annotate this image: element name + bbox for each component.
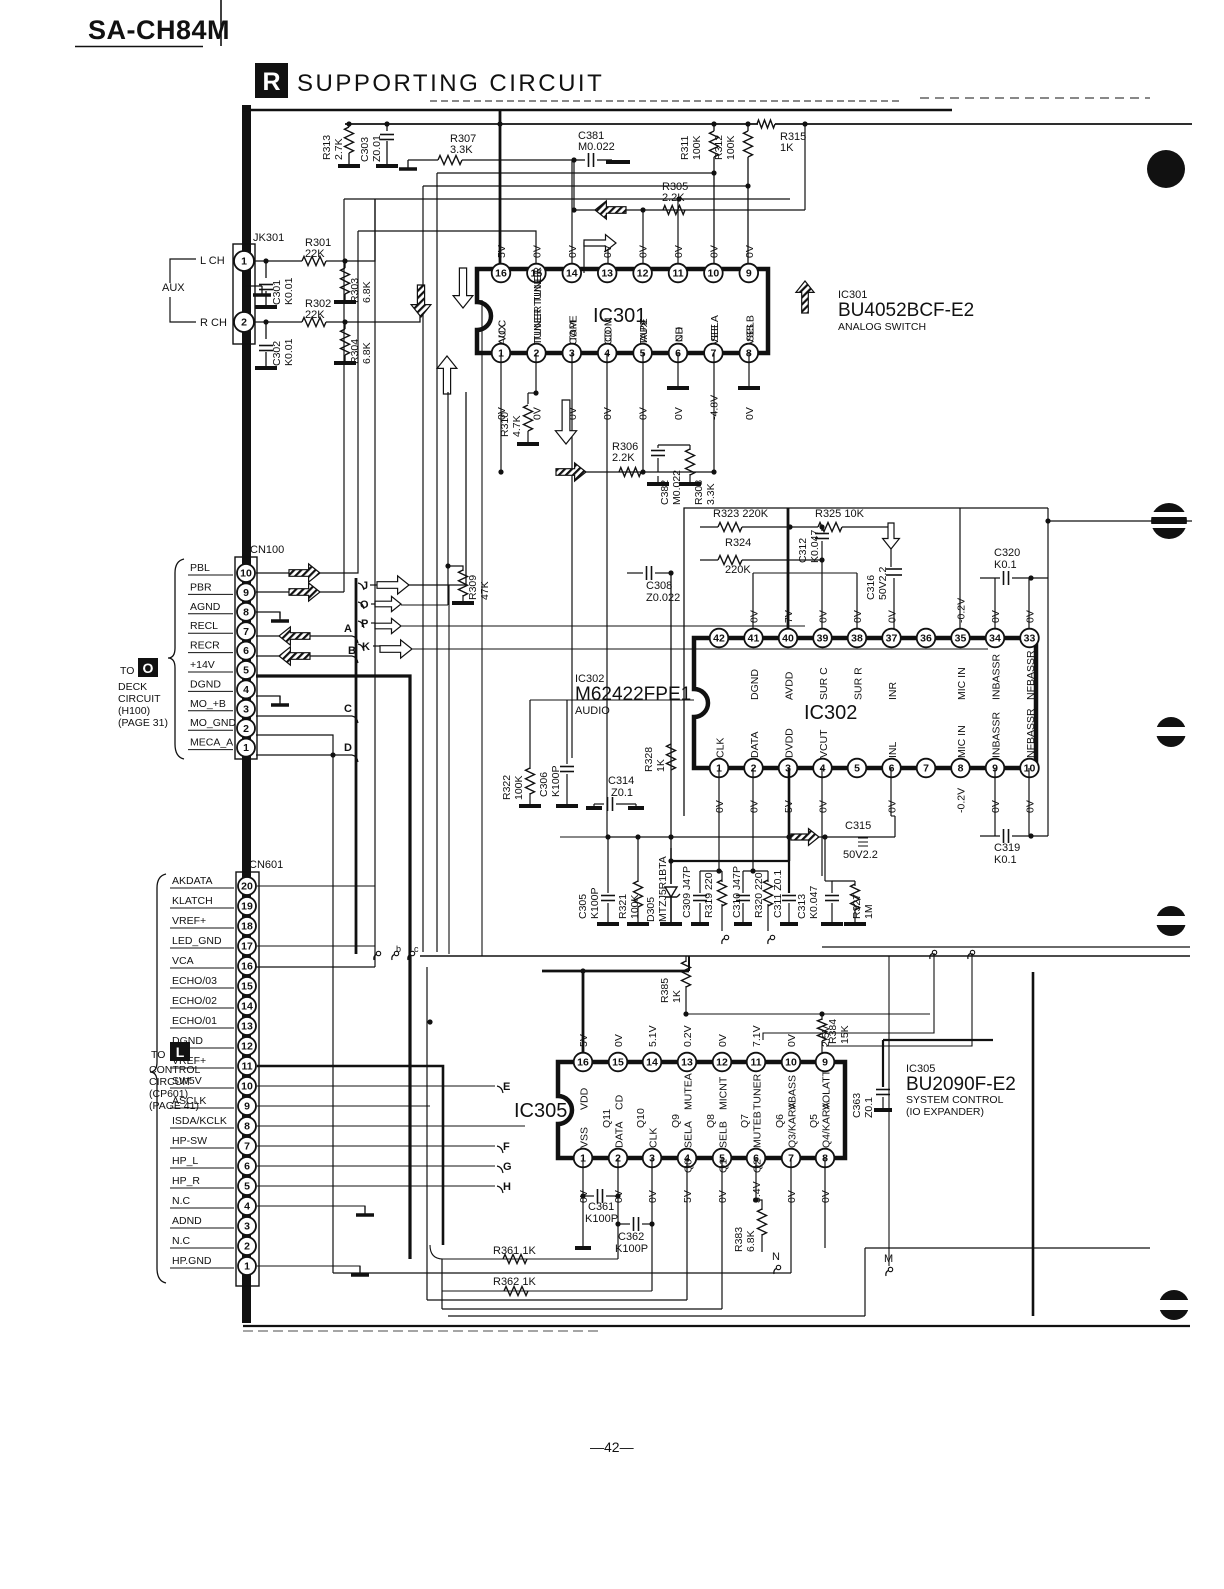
svg-text:D305: D305 xyxy=(645,897,657,922)
registration mark 4 xyxy=(1156,906,1186,936)
resistor R312 100K xyxy=(747,124,749,131)
svg-text:33: 33 xyxy=(1024,633,1036,645)
IC301 pin 4 xyxy=(598,344,617,363)
IC305 pin 11 xyxy=(747,1053,766,1072)
svg-text:22K: 22K xyxy=(305,309,325,321)
svg-text:C305: C305 xyxy=(577,894,589,919)
svg-text:ECHO/01: ECHO/01 xyxy=(172,1015,217,1027)
hatched arrow PBL xyxy=(289,564,320,582)
wire lower bus y848 xyxy=(608,836,895,838)
svg-text:5V: 5V xyxy=(578,1034,590,1047)
svg-text:VCA: VCA xyxy=(172,955,194,967)
svg-text:C314: C314 xyxy=(608,775,634,787)
top bus line xyxy=(345,123,758,125)
svg-text:C306: C306 xyxy=(538,772,550,797)
svg-text:VDD: VDD xyxy=(579,1087,591,1110)
svg-text:0.2V: 0.2V xyxy=(682,1025,694,1047)
hooks b c at section top xyxy=(374,954,378,960)
svg-text:2.2K: 2.2K xyxy=(662,192,685,204)
IC302 pin 35 xyxy=(951,629,970,648)
IC305 pin 7 xyxy=(782,1149,801,1168)
svg-text:TUNER TUNER: TUNER TUNER xyxy=(532,270,544,345)
wire pin41 riser xyxy=(752,573,754,638)
svg-text:HP-SW: HP-SW xyxy=(172,1135,207,1147)
wire IC305 pin8 down xyxy=(824,1158,826,1248)
IC305 pin 5 xyxy=(713,1149,732,1168)
svg-text:LED_GND: LED_GND xyxy=(172,935,222,947)
svg-text:2.5V: 2.5V xyxy=(820,1025,832,1047)
svg-text:JK301: JK301 xyxy=(253,232,284,244)
svg-text:MECA_A: MECA_A xyxy=(190,737,233,749)
svg-text:PBR: PBR xyxy=(190,581,212,593)
svg-text:TUNER: TUNER xyxy=(752,1073,764,1110)
capacitor C302 K0.01 xyxy=(265,322,267,339)
svg-text:0V: 0V xyxy=(990,610,1002,623)
open arrow P xyxy=(375,618,401,633)
IC305 pin 2 xyxy=(609,1149,628,1168)
svg-text:c: c xyxy=(414,944,419,954)
IC305 pin 8 xyxy=(816,1149,835,1168)
hatched arrow RECR xyxy=(279,647,310,665)
wire CN601 pin9 xyxy=(257,1105,430,1107)
svg-text:4: 4 xyxy=(243,684,249,696)
svg-text:Q6: Q6 xyxy=(774,1114,786,1128)
wire IC305 pin1 down ground xyxy=(582,1158,584,1246)
wire JK301 pin2 to R302 xyxy=(254,321,302,323)
svg-text:0V: 0V xyxy=(818,800,830,813)
long wire y186 xyxy=(423,185,748,187)
wire pin4 riser down xyxy=(606,353,608,837)
svg-text:(CP601): (CP601) xyxy=(149,1088,188,1100)
svg-text:5: 5 xyxy=(244,1181,250,1193)
capacitor C308 Z0.022 xyxy=(627,572,643,574)
svg-text:R322: R322 xyxy=(501,775,513,800)
wire IC305 pin4 down xyxy=(686,1158,688,1300)
IC302 pin 5 xyxy=(848,759,867,778)
svg-text:1: 1 xyxy=(241,256,247,268)
svg-text:AUX: AUX xyxy=(162,282,185,294)
hatched arrow PBR xyxy=(289,583,320,601)
hooks right top xyxy=(930,953,934,959)
IC305 pin 13 xyxy=(678,1053,697,1072)
wire C308 down to R328 xyxy=(670,573,672,848)
svg-text:C301: C301 xyxy=(271,280,283,305)
svg-text:DGND: DGND xyxy=(190,678,221,690)
resistor R328 1K xyxy=(667,744,676,770)
loop wire y1316 xyxy=(448,1315,865,1317)
svg-text:42: 42 xyxy=(713,633,725,645)
svg-text:1K: 1K xyxy=(655,759,667,772)
IC302 pin 33 xyxy=(1020,629,1039,648)
section marker R box xyxy=(255,63,288,98)
open arrow O small xyxy=(375,596,401,611)
node J xyxy=(358,583,364,590)
right long wire y947 xyxy=(822,946,1190,948)
IC301 pin 5 xyxy=(633,344,652,363)
hook c xyxy=(768,938,772,944)
svg-text:12: 12 xyxy=(241,1041,253,1053)
svg-text:SELB: SELB xyxy=(718,1121,730,1148)
wire R306 net xyxy=(583,242,585,244)
svg-text:10: 10 xyxy=(241,1081,253,1093)
registration mark 5 xyxy=(1159,1290,1189,1320)
svg-text:R303: R303 xyxy=(349,278,361,303)
wire bus to IC301 pin16 5V xyxy=(499,110,502,273)
wire JK301 pin1 to R301 xyxy=(254,260,302,262)
CN601 pin 20 xyxy=(238,877,256,895)
svg-text:MO_GND: MO_GND xyxy=(190,717,237,729)
IC301 pin 16 xyxy=(492,264,511,283)
loop wire y1300 xyxy=(427,1299,687,1301)
CN601 pin 9 xyxy=(238,1097,256,1115)
IC301 pin 14 xyxy=(563,264,582,283)
CN601 pin 15 xyxy=(238,977,256,995)
IC305 pin 3 xyxy=(643,1149,662,1168)
svg-text:HP.GND: HP.GND xyxy=(172,1255,212,1267)
svg-text:(PAGE 31): (PAGE 31) xyxy=(118,717,168,729)
svg-text:0V: 0V xyxy=(1025,610,1037,623)
svg-text:0V: 0V xyxy=(531,407,543,420)
svg-text:12: 12 xyxy=(637,268,649,280)
wire pin5 riser down xyxy=(642,353,644,472)
svg-text:E: E xyxy=(503,1081,510,1093)
svg-text:P: P xyxy=(361,618,368,630)
svg-text:NFBASSR: NFBASSR xyxy=(1025,650,1037,700)
svg-text:MIC IN: MIC IN xyxy=(956,725,968,758)
CN601 pin 13 xyxy=(238,1017,256,1035)
svg-text:(PAGE 41): (PAGE 41) xyxy=(149,1100,199,1112)
CN601 pin 3 xyxy=(238,1217,256,1235)
svg-text:TO: TO xyxy=(151,1049,165,1061)
svg-text:7V: 7V xyxy=(783,610,795,623)
CN601 pin 5 xyxy=(238,1177,256,1195)
svg-text:-0.2V: -0.2V xyxy=(956,598,968,623)
node K xyxy=(358,644,364,651)
svg-text:VSS: VSS xyxy=(579,1127,591,1148)
svg-text:R CH: R CH xyxy=(200,317,227,329)
wire CN601 pin6 to G xyxy=(257,1165,495,1167)
svg-text:MO_+B: MO_+B xyxy=(190,698,226,710)
svg-text:R310: R310 xyxy=(499,412,511,437)
svg-text:10: 10 xyxy=(785,1057,797,1069)
svg-text:Q2: Q2 xyxy=(752,1159,764,1173)
IC301 pin 3 xyxy=(563,344,582,363)
svg-text:AKDATA: AKDATA xyxy=(172,875,212,887)
svg-text:3.3K: 3.3K xyxy=(705,483,717,505)
connector CN100 box xyxy=(235,557,257,759)
IC305 pin 6 xyxy=(747,1149,766,1168)
svg-text:Q9: Q9 xyxy=(670,1114,682,1128)
hatched arrow RECL xyxy=(279,627,310,645)
CN601 pin 10 xyxy=(238,1077,256,1095)
svg-text:CLK: CLK xyxy=(715,738,727,758)
svg-text:R: R xyxy=(262,68,280,96)
svg-text:N.C: N.C xyxy=(172,1235,191,1247)
hatched arrow up right of IC301 xyxy=(796,281,814,313)
wire CN100 pin9 PBR xyxy=(256,591,344,593)
open arrow on pin13 wire xyxy=(584,235,616,252)
hatched arrow left on R305 wire xyxy=(595,201,626,219)
brace CN100 xyxy=(168,559,184,759)
IC305 pin 9 xyxy=(816,1053,835,1072)
svg-text:K0.047: K0.047 xyxy=(809,530,821,563)
svg-text:CONTROL: CONTROL xyxy=(149,1064,200,1076)
svg-text:0V: 0V xyxy=(887,800,899,813)
svg-text:R321: R321 xyxy=(617,894,629,919)
svg-text:CD: CD xyxy=(614,1094,626,1110)
bottom loop wires xyxy=(333,1272,791,1274)
svg-text:0V: 0V xyxy=(714,800,726,813)
svg-text:PBL: PBL xyxy=(190,562,210,574)
svg-text:RECL: RECL xyxy=(190,620,218,632)
svg-text:13: 13 xyxy=(681,1057,693,1069)
svg-text:8: 8 xyxy=(958,763,964,775)
svg-text:6.8K: 6.8K xyxy=(361,281,373,303)
svg-text:19: 19 xyxy=(241,901,253,913)
IC302 pin 40 xyxy=(779,629,798,648)
wire R305 net y210 xyxy=(574,160,805,210)
wire IC305 pin5 down xyxy=(721,1158,723,1309)
resistor R322 100K xyxy=(530,699,694,701)
svg-text:MICNT: MICNT xyxy=(718,1076,730,1110)
svg-text:2: 2 xyxy=(243,723,249,735)
svg-text:M: M xyxy=(884,1253,893,1265)
svg-text:11: 11 xyxy=(672,268,683,280)
svg-text:N: N xyxy=(772,1251,780,1263)
CN601 pin 11 xyxy=(238,1057,256,1075)
svg-text:M0.022: M0.022 xyxy=(671,470,683,505)
svg-text:9: 9 xyxy=(244,1101,250,1113)
CN100 pin 3 xyxy=(237,700,255,718)
svg-text:100K: 100K xyxy=(725,135,737,160)
svg-text:NFBASSR: NFBASSR xyxy=(1025,708,1037,758)
svg-text:0V: 0V xyxy=(1025,800,1037,813)
IC302 pin 1 xyxy=(710,759,729,778)
svg-text:100K: 100K xyxy=(691,135,703,160)
CN601 pin 19 xyxy=(238,897,256,915)
svg-text:0V: 0V xyxy=(786,1034,798,1047)
svg-text:17: 17 xyxy=(241,941,253,953)
svg-text:R313: R313 xyxy=(321,135,333,160)
wire hook1 down xyxy=(763,953,934,1040)
wire CN100 pin5 +14V thick xyxy=(256,676,410,1259)
svg-text:N.C: N.C xyxy=(172,1195,191,1207)
svg-text:C: C xyxy=(344,703,352,715)
svg-text:CN100: CN100 xyxy=(250,544,284,556)
open arrow down near IC301 left xyxy=(453,268,473,308)
wire CN100 pin4 DGND ground xyxy=(256,696,280,700)
wire pin13 stub with arrow xyxy=(584,243,608,273)
IC302 pin 7 xyxy=(917,759,936,778)
svg-text:50V2.2: 50V2.2 xyxy=(843,849,878,861)
svg-text:R320 220: R320 220 xyxy=(753,872,765,918)
CN601 pin 1 xyxy=(238,1257,256,1275)
svg-text:0V: 0V xyxy=(749,800,761,813)
svg-text:DVDD: DVDD xyxy=(784,728,796,758)
svg-text:1K: 1K xyxy=(671,990,683,1003)
wire pin6 INL down xyxy=(890,768,892,816)
svg-text:C361: C361 xyxy=(588,1201,614,1213)
ground pin8 xyxy=(748,353,750,386)
svg-text:C363: C363 xyxy=(851,1093,863,1118)
svg-text:R383: R383 xyxy=(733,1227,745,1252)
svg-text:IC305: IC305 xyxy=(514,1100,567,1122)
wire CN100 pin6 RECR to B xyxy=(256,655,352,657)
svg-text:Q1: Q1 xyxy=(718,1159,730,1173)
wire K long right xyxy=(412,648,988,650)
svg-text:6.8K: 6.8K xyxy=(745,1230,757,1252)
svg-text:10: 10 xyxy=(240,568,252,580)
svg-text:Z0.1: Z0.1 xyxy=(863,1097,875,1118)
svg-text:VCUT: VCUT xyxy=(818,729,830,758)
svg-text:SYSTEM CONTROL: SYSTEM CONTROL xyxy=(906,1094,1004,1106)
svg-text:0V: 0V xyxy=(744,245,756,258)
svg-text:K100P: K100P xyxy=(550,765,562,797)
bottom section top border xyxy=(420,955,1190,957)
wire pin33 riser xyxy=(1028,578,1030,638)
svg-text:ADND: ADND xyxy=(172,1215,202,1227)
IC301 pin 6 xyxy=(669,344,688,363)
svg-text:J: J xyxy=(362,580,368,592)
capacitor C361 K100P xyxy=(580,1193,585,1198)
svg-text:BU4052BCF-E2: BU4052BCF-E2 xyxy=(838,300,974,321)
brace CN601 xyxy=(150,874,166,1283)
svg-text:3: 3 xyxy=(243,703,249,715)
svg-text:Z0.01: Z0.01 xyxy=(371,135,383,162)
svg-text:HP_L: HP_L xyxy=(172,1155,198,1167)
svg-text:COM: COM xyxy=(567,321,579,346)
svg-text:VREF+: VREF+ xyxy=(172,915,206,927)
wire pin7 riser down xyxy=(713,353,715,472)
wire hook2 down xyxy=(826,953,972,1046)
ground JK301 xyxy=(244,272,262,286)
svg-text:C316: C316 xyxy=(865,575,877,600)
svg-text:CLK: CLK xyxy=(648,1128,660,1148)
wire pin3 riser down xyxy=(571,353,573,758)
svg-text:8: 8 xyxy=(243,606,249,618)
svg-text:ANALOG SWITCH: ANALOG SWITCH xyxy=(838,321,926,333)
hook b xyxy=(722,938,726,944)
svg-text:VSS: VSS xyxy=(744,324,756,345)
capacitor C306 K100P xyxy=(566,700,568,764)
svg-text:SUPPORTING CIRCUIT: SUPPORTING CIRCUIT xyxy=(297,70,604,97)
resistor R309 47K xyxy=(447,566,449,605)
svg-text:AVDD: AVDD xyxy=(784,671,796,700)
svg-text:9: 9 xyxy=(746,268,752,280)
IC301 pin 15 xyxy=(527,264,546,283)
svg-text:b: b xyxy=(396,944,401,954)
svg-text:R319 220: R319 220 xyxy=(703,872,715,918)
svg-text:Q11: Q11 xyxy=(601,1109,613,1128)
svg-text:0V: 0V xyxy=(717,1190,729,1203)
svg-text:0V: 0V xyxy=(567,245,579,258)
svg-text:0V: 0V xyxy=(613,1034,625,1047)
svg-text:4: 4 xyxy=(244,1201,250,1213)
wire right vertical 1048 xyxy=(1047,508,1049,836)
svg-text:K0.01: K0.01 xyxy=(283,277,295,305)
left frame thick bar xyxy=(242,105,251,1323)
svg-text:CIRCUIT: CIRCUIT xyxy=(118,693,161,705)
resistor R304 6.8K xyxy=(344,322,346,329)
ground CN601 pin1 xyxy=(257,1266,360,1270)
svg-text:Q4/KARA.: Q4/KARA. xyxy=(821,1100,833,1148)
svg-text:2.7K: 2.7K xyxy=(333,138,345,160)
svg-text:F: F xyxy=(503,1141,510,1153)
resistor R315 1K in series on bus xyxy=(757,120,775,128)
connector CN601 box xyxy=(236,872,259,1286)
svg-text:14: 14 xyxy=(646,1057,658,1069)
svg-text:-0.2V: -0.2V xyxy=(956,788,968,813)
wire R323 220K net xyxy=(700,526,718,528)
svg-text:K0.1: K0.1 xyxy=(994,854,1017,866)
riser x375 xyxy=(374,199,376,967)
svg-text:K0.047: K0.047 xyxy=(808,886,820,919)
svg-text:0V: 0V xyxy=(717,1034,729,1047)
wire CN100 pin1 MECA_A to D xyxy=(256,754,352,756)
svg-text:9: 9 xyxy=(243,587,249,599)
svg-text:C302: C302 xyxy=(271,341,283,366)
registration mark 3 xyxy=(1156,717,1186,747)
connector JK301 xyxy=(233,244,255,344)
svg-text:13: 13 xyxy=(601,268,613,280)
wire CN601 pin7 to F xyxy=(257,1145,495,1147)
svg-text:A: A xyxy=(344,623,352,635)
svg-text:3: 3 xyxy=(244,1221,250,1233)
svg-text:1M: 1M xyxy=(863,904,875,919)
IC302 pin 41 xyxy=(744,629,763,648)
CN601 pin 17 xyxy=(238,937,256,955)
wire pin1 riser down xyxy=(500,353,502,472)
svg-text:Q10: Q10 xyxy=(635,1108,647,1128)
IC302 pin 36 xyxy=(917,629,936,648)
svg-text:14: 14 xyxy=(566,268,578,280)
wire bus drop right xyxy=(804,124,806,210)
CN100 pin 4 xyxy=(237,680,255,698)
svg-text:18: 18 xyxy=(241,921,253,933)
svg-text:CIRCUIT: CIRCUIT xyxy=(149,1076,192,1088)
svg-text:40: 40 xyxy=(782,633,794,645)
IC302 pin 10 xyxy=(1020,759,1039,778)
svg-text:Q5: Q5 xyxy=(808,1114,820,1128)
svg-text:INBASSR: INBASSR xyxy=(991,711,1003,758)
svg-text:Q7: Q7 xyxy=(739,1114,751,1128)
svg-text:M62422FPE1: M62422FPE1 xyxy=(575,684,691,705)
svg-text:11: 11 xyxy=(241,1061,252,1073)
svg-text:ECHO/02: ECHO/02 xyxy=(172,995,217,1007)
registration mark 2 xyxy=(1151,503,1187,539)
svg-text:+14V: +14V xyxy=(190,659,215,671)
svg-text:0V: 0V xyxy=(749,610,761,623)
svg-text:0V: 0V xyxy=(887,610,899,623)
IC302 pin 2 xyxy=(744,759,763,778)
CN100 pin 2 xyxy=(237,719,255,737)
amp IC302 package outline xyxy=(694,638,1036,768)
IC305 pin 14 xyxy=(643,1053,662,1072)
CN100 pin 9 xyxy=(237,583,255,601)
svg-text:20: 20 xyxy=(241,881,253,893)
CN100 pin 10 xyxy=(237,564,255,582)
svg-text:35: 35 xyxy=(955,633,967,645)
wire O to R309 xyxy=(401,604,448,606)
capacitor C301 K0.01 xyxy=(265,261,267,278)
svg-text:38: 38 xyxy=(851,633,863,645)
svg-text:C308: C308 xyxy=(646,580,672,592)
svg-text:C309 J47P: C309 J47P xyxy=(681,866,693,918)
IC301 pin 7 xyxy=(704,344,723,363)
svg-text:SUR C: SUR C xyxy=(818,667,830,700)
svg-text:10: 10 xyxy=(708,268,720,280)
svg-text:K100P: K100P xyxy=(589,887,601,919)
